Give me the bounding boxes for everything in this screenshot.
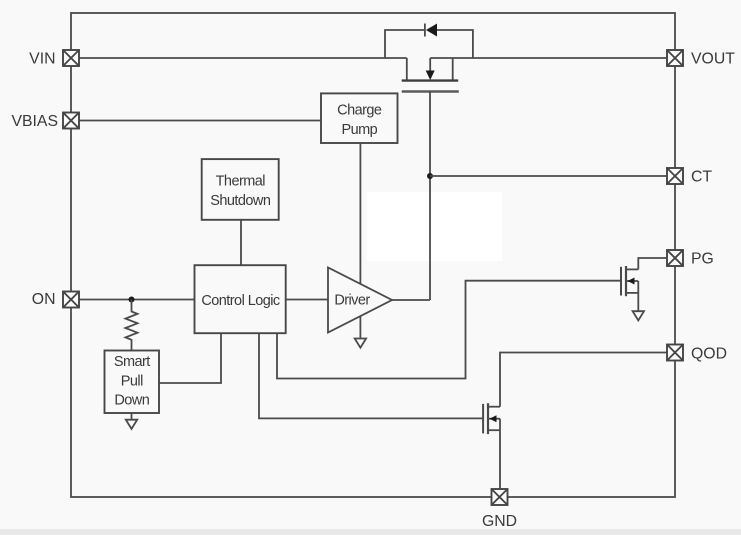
svg-text:ON: ON [32,291,56,308]
wire Q3 source to GND pin [499,419,501,489]
svg-text:VOUT: VOUT [691,51,735,68]
wire Q1 gate to driver output [429,92,431,301]
svg-text:Control Logic: Control Logic [201,293,280,309]
svg-text:QOD: QOD [691,346,727,363]
svg-text:VBIAS: VBIAS [11,113,58,130]
svg-text:VIN: VIN [29,51,55,68]
pin VBIAS [63,113,79,129]
svg-text:Thermal: Thermal [216,174,266,190]
pin VIN [63,50,79,66]
wire pass FET source to VOUT [430,57,667,59]
svg-text:Driver: Driver [334,293,370,309]
svg-text:Charge: Charge [337,103,382,119]
IC boundary [71,13,675,497]
body diode D1 [385,24,473,59]
svg-text:Down: Down [114,393,149,409]
wire control logic to driver [286,299,328,301]
transistor Q3 QOD [483,403,500,434]
svg-text:Pull: Pull [121,373,143,389]
wire control logic to Q3 gate [259,333,483,418]
wire CT [430,175,667,177]
svg-text:Smart: Smart [114,354,150,370]
svg-text:PG: PG [691,251,714,268]
driver U1 [328,268,392,333]
resistor R1 [126,300,138,351]
pin CT [667,168,683,184]
block Control Logic [195,265,286,333]
node CT tap [427,173,433,179]
wire thermal shutdown to control logic [240,220,242,265]
pass FET Q1 [402,58,459,92]
wire Q3 drain to QOD pin [500,353,667,407]
pin VOUT [667,50,683,66]
svg-text:Pump: Pump [341,122,377,138]
wire charge pump output to driver [359,143,361,284]
block Charge Pump [321,93,398,143]
block Smart Pull Down [105,351,160,414]
wire Q2 drain to PG pin [638,258,667,269]
transistor Q2 PG pull-down [621,266,638,296]
wire VIN rail to pass FET drain [79,57,407,59]
pin PG [667,250,683,266]
wire ON to control logic [79,299,195,301]
node ON junction [129,297,135,303]
wire VBIAS to charge pump [79,120,321,122]
pin QOD [667,345,683,361]
ground smart pull down [126,413,137,429]
svg-text:Shutdown: Shutdown [210,193,271,209]
wire control logic to Q2 gate [277,281,621,379]
ground driver [355,316,366,348]
svg-text:CT: CT [691,169,712,186]
wire driver output to Q1 gate [392,299,430,301]
ground Q2 [633,281,644,320]
block Thermal Shutdown [202,159,279,220]
pin GND [492,489,508,505]
pin ON [63,292,79,308]
wire smart pull down to control logic [159,333,221,383]
svg-text:GND: GND [482,513,517,530]
